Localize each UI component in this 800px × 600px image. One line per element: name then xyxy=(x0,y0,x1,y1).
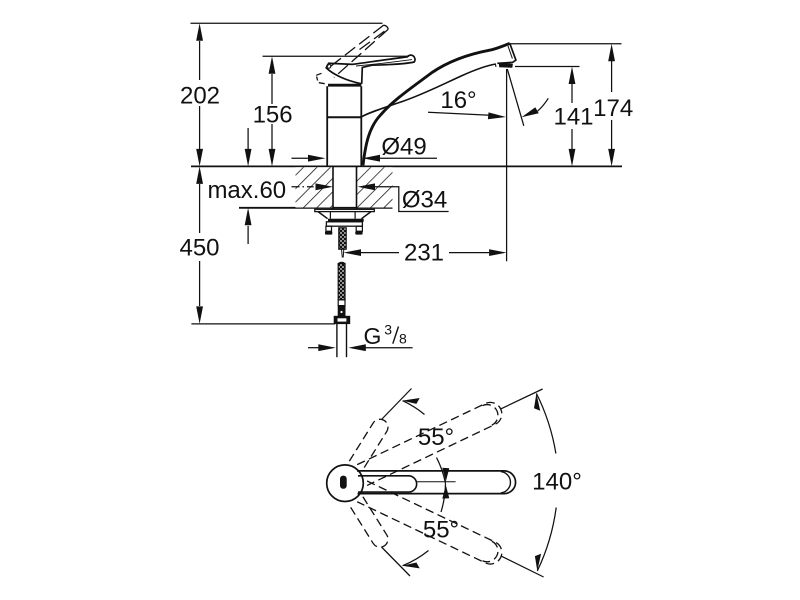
svg-text:Ø34: Ø34 xyxy=(402,187,447,214)
svg-text:141: 141 xyxy=(553,104,593,131)
svg-text:202: 202 xyxy=(180,83,220,110)
svg-text:174: 174 xyxy=(593,95,633,122)
svg-text:140°: 140° xyxy=(532,469,582,496)
svg-text:Ø49: Ø49 xyxy=(381,133,426,160)
svg-text:55°: 55° xyxy=(423,517,459,544)
svg-text:16°: 16° xyxy=(440,87,476,114)
svg-text:3: 3 xyxy=(384,321,392,337)
svg-text:55°: 55° xyxy=(418,424,454,451)
svg-text:max.60: max.60 xyxy=(207,177,286,204)
svg-text:450: 450 xyxy=(179,235,219,262)
svg-text:231: 231 xyxy=(404,240,444,267)
svg-text:8: 8 xyxy=(399,331,407,347)
svg-text:G: G xyxy=(363,323,381,349)
svg-text:156: 156 xyxy=(253,101,293,128)
